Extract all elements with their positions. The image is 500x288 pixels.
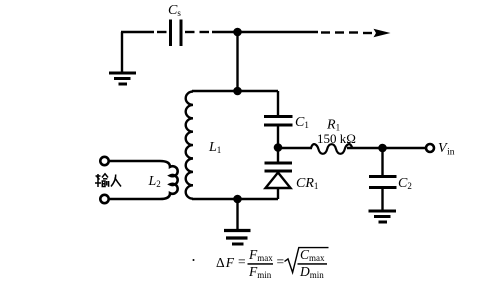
wire <box>381 148 383 175</box>
svg-text:Dmin: Dmin <box>299 264 324 280</box>
wire tank bottom rail <box>192 198 278 200</box>
node junction tank bottom <box>233 195 242 204</box>
node junction at C2 <box>378 144 387 153</box>
svg-text:L1: L1 <box>208 140 221 155</box>
wire <box>277 125 279 148</box>
terminal input top <box>100 157 108 165</box>
svg-text:CR1: CR1 <box>296 176 318 191</box>
node junction at tank top <box>233 87 242 96</box>
ground below C2 <box>369 211 397 222</box>
wire <box>121 31 154 33</box>
wire <box>157 31 167 33</box>
svg-text:=: = <box>277 254 285 269</box>
svg-text:Fmin: Fmin <box>248 264 272 280</box>
wire <box>278 147 312 149</box>
inductor L2 <box>109 161 178 199</box>
formula delta F <box>193 247 329 280</box>
wire <box>347 147 426 149</box>
svg-text:Cs: Cs <box>168 3 181 18</box>
svg-text:=: = <box>238 254 246 269</box>
svg-text:Vin: Vin <box>438 141 455 158</box>
stray dot mark <box>193 259 195 261</box>
wire <box>212 31 318 33</box>
svg-text:L2: L2 <box>148 174 161 189</box>
wire <box>277 91 279 115</box>
入 <box>111 175 121 187</box>
node junction between C1 and CR1 <box>274 143 283 152</box>
输 <box>95 174 109 187</box>
inductor L1 <box>186 92 222 199</box>
terminal input bottom <box>100 195 108 203</box>
label input (Chinese 输入) <box>95 174 121 187</box>
wire <box>185 31 209 33</box>
ground <box>109 32 136 84</box>
svg-text:ΔF: ΔF <box>216 255 235 270</box>
svg-text:Fmax: Fmax <box>248 247 273 263</box>
capacitor Cs <box>168 3 181 46</box>
ground below tank <box>224 199 251 244</box>
capacitor C2 <box>369 176 412 191</box>
svg-text:150 kΩ: 150 kΩ <box>317 131 356 146</box>
svg-text:Cmax: Cmax <box>300 247 325 263</box>
capacitor C1 <box>264 115 309 130</box>
svg-text:C1: C1 <box>295 115 309 130</box>
wire dashed with arrow <box>321 29 391 38</box>
wire <box>381 188 383 211</box>
wire tank top rail <box>192 90 278 92</box>
varactor CR1 <box>265 148 319 199</box>
svg-text:C2: C2 <box>398 176 412 191</box>
terminal Vin <box>426 141 455 158</box>
node top junction <box>233 28 242 37</box>
resistor R1 <box>311 118 356 154</box>
wire <box>236 32 238 91</box>
